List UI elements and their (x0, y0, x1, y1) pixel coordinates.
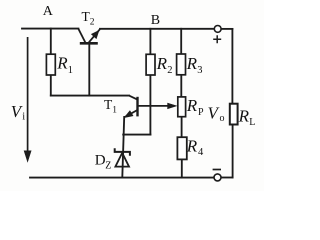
potentiometer RP body (178, 97, 186, 117)
svg-text:R: R (186, 54, 198, 73)
wire R1 bottom lead (50, 75, 52, 96)
zener diode DZ (115, 148, 130, 166)
label Vo (208, 103, 225, 124)
resistor R1 (46, 54, 55, 75)
wire bottom rail main (30, 177, 214, 179)
svg-text:R: R (186, 96, 198, 115)
svg-text:R: R (238, 107, 250, 126)
output terminal - (bottom right) (213, 170, 221, 181)
output terminal + (top right) (213, 26, 221, 44)
transistor T2 label (82, 9, 95, 28)
label R2 (156, 54, 173, 76)
resistor R4 (177, 137, 186, 159)
wire R2 bottom lead (149, 75, 151, 135)
wire R2 to zener horizontal (123, 134, 150, 136)
svg-text:o: o (220, 113, 225, 124)
svg-text:D: D (95, 153, 106, 169)
svg-text:A: A (43, 4, 54, 19)
wire mid horizontal (R1 to T1 collector) (51, 95, 129, 97)
svg-text:B: B (151, 13, 160, 28)
wire R4 bottom lead (181, 159, 183, 177)
label Vi (11, 102, 25, 122)
input annotation arrow Vi (24, 37, 31, 162)
svg-text:2: 2 (167, 65, 172, 76)
wire top rail left (A segment) (22, 28, 78, 30)
label R1 (56, 53, 73, 76)
svg-text:T2: T2 (82, 9, 95, 28)
transistor T1 (125, 96, 138, 118)
resistor R2 (146, 54, 155, 75)
svg-text:1: 1 (68, 65, 73, 76)
svg-text:P: P (198, 107, 204, 118)
svg-text:L: L (249, 117, 255, 128)
label R3 (186, 54, 203, 76)
label R4 (186, 137, 204, 159)
label RL (238, 107, 256, 129)
wire R1 top lead (50, 29, 52, 55)
wire from + terminal to top-right corner (221, 28, 232, 30)
wire right rail lower (232, 125, 234, 178)
label RP (186, 96, 204, 118)
resistor RL (230, 104, 238, 125)
svg-text:i: i (22, 111, 25, 122)
label DZ (95, 153, 112, 172)
wire top rail right (B segment) (100, 28, 214, 30)
node B label (151, 13, 160, 28)
svg-text:Z: Z (105, 161, 111, 172)
transistor T2 (78, 29, 100, 44)
svg-text:T1: T1 (104, 97, 117, 116)
wire R2 top lead (149, 29, 151, 55)
wire bottom rail right of terminal (221, 177, 233, 179)
wire T1 emitter to zener and ground (122, 117, 124, 178)
resistor R3 (177, 54, 186, 75)
transistor T1 label (104, 97, 117, 116)
svg-text:R: R (186, 137, 198, 156)
svg-text:R: R (156, 54, 168, 73)
wire R3 to RP lead (180, 75, 182, 97)
svg-text:4: 4 (198, 147, 204, 158)
wire right rail upper (231, 29, 233, 104)
svg-text:3: 3 (197, 65, 202, 76)
wire R3 top lead (180, 29, 182, 54)
wire RP to R4 lead (181, 117, 183, 138)
node A label (43, 4, 54, 19)
wiper arrow from T1 base to RP (138, 103, 177, 109)
svg-text:R: R (56, 53, 68, 72)
wire T2 base lead down (88, 43, 90, 95)
